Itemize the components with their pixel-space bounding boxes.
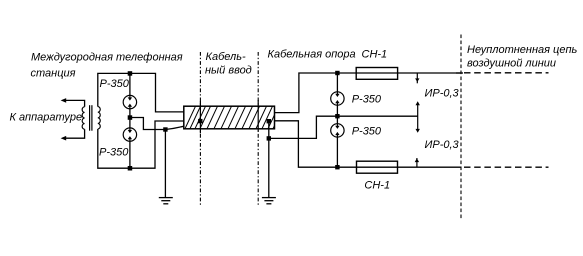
- arrowhead: to equipment lower: [61, 136, 67, 141]
- svg-text:Кабельная опора: Кабельная опора: [268, 49, 356, 61]
- wire: left circle2 to bottom wire: [129, 141, 131, 168]
- wire: right circle2 to bottom wire: [336, 137, 338, 167]
- svg-text:Неуплотненная цепь: Неуплотненная цепь: [467, 44, 578, 56]
- boundary: solid crossing of dash-dot line 2 through cable box: [257, 100, 259, 132]
- svg-text:Р-350: Р-350: [352, 126, 382, 138]
- node: ground 2 mid tap: [267, 136, 271, 140]
- wire: ground 1 down lead: [164, 130, 166, 198]
- wire: mid node link to ground 2: [269, 116, 338, 138]
- wire: right arrester chain top lead: [336, 73, 338, 92]
- wire: dashed aerial top wire: [464, 72, 549, 74]
- transformer T1 left lead lower with arrow: [64, 129, 85, 138]
- boundary: solid crossing of dash-dot line 1 through cable box: [199, 101, 201, 133]
- wire: middle measurement wire: [337, 115, 418, 117]
- node: right mid junction: [335, 114, 339, 118]
- wire: dashed aerial bottom wire: [464, 166, 549, 168]
- boundary: dashed line air-line start: [460, 35, 462, 220]
- svg-text:ный ввод: ный ввод: [205, 65, 252, 77]
- transformer T1 right winding: [98, 107, 100, 129]
- transformer T1 left winding: [82, 107, 84, 129]
- node: ground 1 tap: [163, 127, 167, 131]
- wire: pole top wire A: [275, 73, 462, 113]
- measurement arrow: up from bottom wire: [416, 158, 418, 168]
- measurement arrow: down from top wire: [416, 73, 418, 83]
- node: right top junction: [335, 71, 339, 75]
- fuse СН-1 bottom: [357, 161, 398, 173]
- boundary: dash-dot line at cable entry right: [257, 52, 259, 206]
- svg-text:Междугородная телефонная: Междугородная телефонная: [31, 52, 183, 64]
- wire: between left arresters: [129, 109, 131, 128]
- boundary: dash-dot line at cable entry left: [199, 52, 201, 206]
- svg-text:К аппаратуре: К аппаратуре: [10, 112, 83, 124]
- wire: sheath right ground lead: [268, 121, 270, 197]
- transformer T1 left lead upper with arrow: [64, 100, 85, 106]
- wire: top wire crossing at boundary: [456, 72, 463, 74]
- node: sheath ground tap left (inside box): [198, 119, 202, 123]
- svg-text:Р-350: Р-350: [100, 78, 130, 90]
- ground: right earth symbol: [262, 198, 276, 204]
- svg-text:СН-1: СН-1: [364, 180, 390, 192]
- node: sheath ground tap right (inside box): [267, 119, 271, 123]
- arrester chain left: top lead: [129, 73, 131, 95]
- node: left mid junction: [128, 115, 133, 120]
- wire: pole bottom wire B: [275, 121, 462, 167]
- arrester Р-350 left upper: [123, 95, 136, 108]
- node: right bottom junction: [335, 165, 339, 169]
- svg-text:станция: станция: [31, 68, 76, 80]
- arrester Р-350 left lower: [123, 128, 136, 141]
- wire: between right arresters: [336, 105, 338, 124]
- cable: hatched sheath box: [183, 103, 285, 133]
- arrester Р-350 right upper: [331, 92, 344, 105]
- svg-text:воздушной линии: воздушной линии: [467, 57, 556, 69]
- arrowhead: to equipment upper: [61, 98, 67, 103]
- svg-text:Р-350: Р-350: [352, 93, 382, 105]
- node: left bottom junction: [128, 166, 133, 171]
- fuse СН-1 top: [356, 68, 397, 80]
- measurement arrow: double arrow at middle wire: [417, 103, 419, 132]
- ground: left earth symbol: [159, 198, 173, 204]
- wire: left mid node to ground elbow: [130, 118, 166, 130]
- arrester Р-350 right lower: [331, 124, 344, 137]
- svg-text:Р-350: Р-350: [99, 147, 129, 159]
- svg-text:ИР-0,3: ИР-0,3: [425, 88, 460, 100]
- svg-text:ИР-0,3: ИР-0,3: [425, 139, 460, 151]
- node: top-left junction: [128, 71, 133, 76]
- wire: cable sheath slant to ground: [165, 121, 200, 129]
- svg-text:Кабель-: Кабель-: [206, 51, 247, 63]
- transformer T1 core: [89, 105, 91, 131]
- wire: station top wire: [98, 73, 184, 112]
- wire: station bottom wire: [98, 121, 184, 168]
- svg-text:СН-1: СН-1: [362, 49, 388, 61]
